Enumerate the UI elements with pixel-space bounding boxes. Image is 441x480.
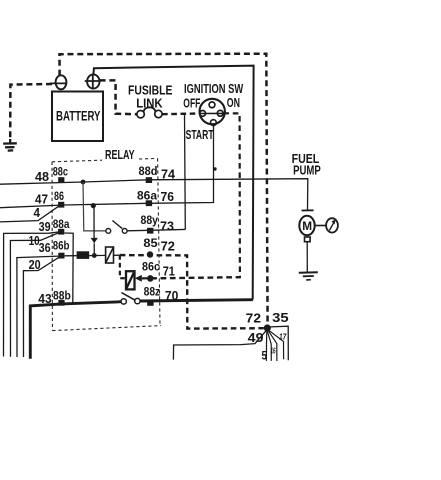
wire row 70 from contact to right vertical [140,300,253,301]
wire battery positive solid feed to relay contact (top run and right vertical) [93,66,253,300]
wire 49 [173,331,266,360]
svg-text:PUMP: PUMP [293,164,321,178]
svg-text:START: START [186,128,214,142]
relay box K1 (dashed outline) [52,158,161,330]
wire junction branch [267,329,277,361]
svg-text:88z: 88z [144,286,161,299]
pin 88z [147,300,153,306]
svg-text:74: 74 [161,168,175,182]
ignition switch S1 [183,82,243,142]
fuel pump feed terminal [302,209,314,211]
wire vertical A row1 to switch contact [83,182,106,231]
pin 88c [58,177,64,183]
wire 10 [10,233,59,357]
svg-text:88b: 88b [53,289,71,302]
wire fusible link to ignition switch OFF terminal (dashed) [162,112,200,115]
wire 16 [267,330,271,361]
svg-text:OFF: OFF [183,97,200,111]
pin 86 [58,202,64,208]
wire 5 [265,330,267,361]
relay coil L2 (86c) [126,271,135,289]
svg-text:LINK: LINK [136,96,163,111]
svg-text:20: 20 [29,258,41,272]
svg-text:IGNITION SW: IGNITION SW [184,82,243,96]
wire battery positive to fusible link (dashed) [100,80,137,114]
wire 35 [267,326,288,360]
wire 36 [17,256,59,357]
fuel pump motor M [292,152,321,235]
node on start vertical [213,167,216,170]
pin 86b [58,253,64,259]
svg-text:16: 16 [271,347,276,356]
svg-text:35: 35 [272,311,289,325]
svg-text:BATTERY: BATTERY [56,109,101,124]
pin 86a [146,200,152,206]
svg-text:73: 73 [160,220,174,234]
node B row2 junction [91,203,96,208]
svg-text:4: 4 [34,206,41,220]
wire row 1 / 48 to 88d to fuel pump [0,179,308,211]
battery positive terminal [85,74,101,89]
wire resistor to coil L1 [89,254,105,256]
svg-text:48: 48 [35,170,49,184]
svg-text:47: 47 [35,193,48,207]
wire branch to coil L2 (dashed) [120,255,126,278]
relay coil L1 [106,247,114,263]
svg-text:5: 5 [262,350,268,362]
wire pin 86c row (dashed to ON vertical) [142,277,240,278]
wire 4 [0,206,59,222]
wire 17 [268,329,284,359]
wire battery negative to ground (dashed) [10,84,52,140]
svg-text:86b: 86b [53,239,70,252]
wire 39 [4,232,60,357]
arrow into coil L2 [135,275,142,282]
svg-text:72: 72 [246,311,261,325]
wire row 4 pin 86b to resistor [65,255,77,257]
svg-text:17: 17 [279,331,287,341]
svg-text:86c: 86c [142,260,161,273]
junction node (wires 72/35/49/5/16/17) [264,324,271,331]
svg-text:76: 76 [161,190,175,204]
wire vertical C pin 88a to row 88b [64,233,73,304]
node C row4 junction [92,253,97,258]
relay switch contact K1a (88y row) [106,221,185,234]
svg-text:43: 43 [38,292,51,306]
wire motor to ground [306,242,308,273]
fuel pump lower terminal [305,237,311,242]
wire 20 [23,257,59,357]
svg-text:88a: 88a [53,218,70,231]
svg-text:M: M [302,219,312,233]
wire ignition START terminal to relay pin 86a row (row 2 / wire 47) [0,126,214,208]
svg-text:ON: ON [227,96,240,110]
pressure gauge [326,218,338,232]
resistor R1 (solid block) [77,251,90,259]
svg-text:88d: 88d [139,165,158,178]
pin 88a [58,229,64,235]
svg-text:49: 49 [248,331,264,345]
svg-text:72: 72 [161,239,175,253]
svg-text:85: 85 [143,237,158,250]
pin 88y [147,228,153,234]
wire coil L1 to pin 85 and down right to junction (wire 72, dashed) [114,255,264,329]
pin 88b [58,300,64,306]
pin 85 [147,251,153,257]
battery negative terminal [50,75,67,89]
svg-text:39: 39 [39,220,51,234]
svg-text:86: 86 [54,190,64,203]
fusible link F1 [128,83,173,118]
svg-text:RELAY: RELAY [105,147,135,162]
pin 88d [146,177,152,183]
svg-text:88y: 88y [141,214,159,227]
svg-text:86a: 86a [137,190,158,203]
wire battery negative top feed to junction (dashed) [60,54,268,326]
wire vertical B row2 to diode [93,206,95,238]
wire 43 / row 70 thick bottom run [30,302,121,359]
relay switch contact K1b (88z row) [121,293,140,305]
ground G1 (battery earth) [3,139,17,151]
svg-text:70: 70 [165,289,179,303]
node A row1 junction [81,180,86,185]
wire diode to row 4 [93,243,95,255]
svg-text:36: 36 [39,241,51,255]
wire motor to gauge [315,225,327,227]
svg-text:88c: 88c [53,166,69,179]
svg-text:71: 71 [163,264,175,278]
diode D1 (arrow down) [91,238,98,243]
battery B1 [52,92,103,142]
wire fuse junction down to relay pin 88y row (wire 73 feed) [184,114,187,230]
wire ignition ON terminal down to relay pin 86c (dashed) [154,113,240,278]
pin 86c [147,275,154,282]
ground G2 (fuel pump) [299,272,318,280]
